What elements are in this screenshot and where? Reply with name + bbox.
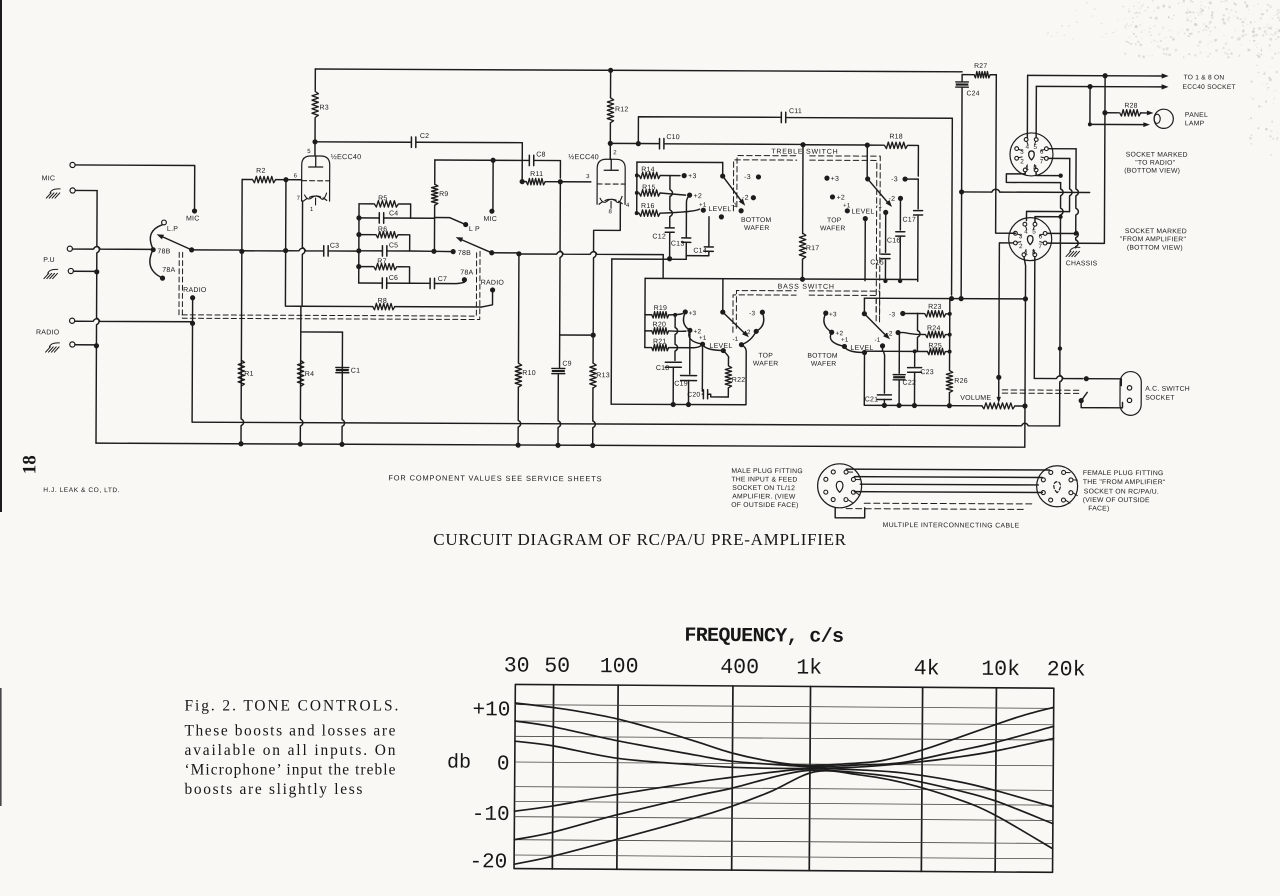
curve cut max: [514, 769, 1053, 868]
wire C11 line: [638, 117, 953, 295]
svg-text:C12: C12: [652, 233, 666, 240]
switch S1b LP contact: [463, 222, 468, 227]
resistor R9: [434, 160, 436, 184]
arc S3b plus chain: [824, 313, 865, 352]
svg-text:C2: C2: [420, 133, 429, 140]
node rail C5: [356, 248, 361, 253]
svg-text:TREBLE SWITCH: TREBLE SWITCH: [771, 148, 838, 155]
node grid ladder tap: [283, 248, 288, 253]
svg-text:TOP: TOP: [827, 217, 842, 224]
svg-text:VOLUME: VOLUME: [960, 395, 991, 402]
resistor R27: [962, 74, 974, 76]
svg-text:-2: -2: [886, 330, 892, 337]
svg-text:FOR COMPONENT VALUES SEE SERVI: FOR COMPONENT VALUES SEE SERVICE SHEETS: [388, 473, 602, 483]
svg-text:SOCKET ON RC/PA/U.: SOCKET ON RC/PA/U.: [1084, 488, 1159, 495]
lamp feed 2: [1089, 87, 1091, 125]
capacitor C14 column: [708, 217, 710, 247]
svg-text:-2: -2: [742, 195, 749, 202]
node C9 bottom: [555, 443, 560, 448]
capacitor C5: [382, 246, 386, 256]
svg-text:C5: C5: [389, 242, 398, 249]
svg-text:18: 18: [19, 455, 40, 474]
svg-text:FACE): FACE): [1088, 505, 1109, 512]
curve cut low: [514, 766, 1053, 815]
curve boost mid: [515, 721, 1054, 768]
cable conductor 3: [860, 483, 1038, 486]
node C10 line R17: [800, 142, 805, 147]
node HT junction at R12: [608, 68, 613, 73]
terminal PU earth: [68, 268, 73, 273]
switch S2a +2: [687, 193, 692, 198]
wire R28 feed: [1104, 76, 1106, 113]
svg-text:50: 50: [544, 655, 570, 679]
switch S3a -3: [760, 310, 765, 315]
page edge line left: [0, 0, 2, 512]
capacitor C9: [559, 335, 561, 367]
svg-text:CHASSIS: CHASSIS: [1066, 260, 1098, 267]
node C18 bottom: [671, 402, 676, 407]
wire treble level column: [864, 219, 866, 281]
svg-text:FREQUENCY, c/s: FREQUENCY, c/s: [684, 625, 844, 649]
switch S3b +1: [842, 344, 847, 349]
capacitor C6: [359, 282, 410, 284]
capacitor C19 column: [689, 330, 691, 374]
svg-text:LEVEL: LEVEL: [852, 208, 875, 215]
wire anode line C10: [610, 143, 803, 144]
wire -2 to R24: [898, 333, 924, 335]
svg-text:C15: C15: [870, 259, 884, 266]
svg-text:WAFER: WAFER: [811, 361, 837, 368]
svg-text:"FROM AMPLIFIER": "FROM AMPLIFIER": [1120, 236, 1187, 243]
svg-text:C14: C14: [693, 248, 707, 255]
resistor R19: [645, 314, 652, 316]
svg-text:C7: C7: [438, 276, 447, 283]
svg-text:+3: +3: [829, 311, 837, 318]
switch S3b -1: [880, 343, 885, 348]
socket J1 TO RADIO: [1010, 133, 1053, 176]
node C22 bottom: [896, 403, 901, 408]
chart frame: [514, 684, 1054, 872]
wire R11 to V2 grid: [560, 181, 590, 183]
op-amp U2 tube V2 half-ECC40: [597, 159, 625, 204]
capacitor C4: [359, 217, 411, 219]
svg-text:C21: C21: [865, 396, 879, 403]
svg-text:-10: -10: [472, 804, 510, 827]
node rail C4: [356, 215, 361, 220]
switch S2b -2: [898, 196, 903, 201]
svg-text:R2: R2: [256, 168, 265, 175]
svg-text:0: 0: [497, 753, 510, 776]
capacitor C11: [781, 112, 785, 122]
svg-text:R5: R5: [378, 195, 387, 202]
capacitor C1: [342, 332, 345, 444]
svg-text:R20: R20: [653, 321, 667, 328]
svg-text:100: 100: [600, 655, 639, 679]
ground RADIO: [46, 343, 60, 352]
switch S3a -1: [739, 342, 744, 347]
pot wiper arrow: [996, 375, 1001, 380]
svg-text:8: 8: [609, 209, 613, 215]
wire C2 column join: [521, 177, 523, 181]
panel lamp: [1154, 109, 1173, 128]
svg-text:3: 3: [1020, 149, 1024, 156]
wire treble-right bottom / bass top: [645, 278, 918, 279]
switch S2b pivot: [865, 176, 870, 181]
wire R23-25 right rail: [949, 299, 951, 370]
svg-text:BOTTOM: BOTTOM: [741, 217, 772, 224]
svg-text:-2: -2: [889, 196, 896, 203]
terminal RADIO input: [70, 318, 75, 323]
svg-text:+1: +1: [699, 202, 707, 209]
wire RADIO contact to R8: [481, 290, 492, 307]
node MIC contact: [192, 208, 197, 213]
svg-text:MALE PLUG FITTING: MALE PLUG FITTING: [731, 468, 803, 475]
svg-text:-1: -1: [731, 202, 737, 209]
svg-text:78A: 78A: [162, 267, 175, 274]
svg-text:WAFER: WAFER: [753, 360, 779, 367]
switch S2a arm: [723, 176, 743, 202]
node switch1 common tap: [239, 249, 244, 254]
cable conductor 4: [854, 491, 1042, 494]
wire V1 cathode down: [302, 201, 305, 306]
wire -3 to C17 column: [905, 178, 918, 180]
switch S3a +2: [687, 328, 692, 333]
resistor R10: [516, 251, 521, 256]
svg-text:C18: C18: [656, 365, 670, 372]
svg-text:7: 7: [1040, 158, 1044, 165]
node R13 bottom: [590, 443, 595, 448]
switch S2a -2: [751, 195, 756, 200]
switch S3b pivot: [862, 311, 867, 316]
svg-text:SOCKET MARKED: SOCKET MARKED: [1126, 152, 1188, 159]
node C21 bottom: [882, 403, 887, 408]
socket J2 FROM AMPLIFIER: [1009, 218, 1052, 261]
svg-text:+3: +3: [831, 176, 840, 183]
wire grid line V2: [492, 252, 519, 254]
svg-text:5: 5: [1032, 229, 1036, 236]
svg-text:A.C. SWITCH: A.C. SWITCH: [1145, 386, 1190, 393]
svg-text:5: 5: [1034, 144, 1038, 151]
potentiometer VOLUME: [982, 403, 1015, 409]
node R12 plate junction: [608, 141, 613, 146]
wire R11-right column: [560, 182, 563, 335]
cable dashed outline 1: [864, 502, 1035, 505]
svg-text:-3: -3: [749, 310, 755, 317]
curve treble/bass boost max: [515, 703, 1054, 767]
svg-text:4k: 4k: [914, 657, 940, 681]
wire S1a common to grid line: [192, 249, 242, 251]
svg-text:C19: C19: [674, 381, 688, 388]
svg-text:6: 6: [294, 173, 298, 179]
switch S2a +1: [701, 208, 706, 213]
switch S3a +1: [700, 342, 705, 347]
switch S1a 78B contact: [151, 247, 156, 252]
svg-text:db: db: [447, 752, 471, 775]
svg-text:WAFER: WAFER: [744, 225, 770, 232]
node R9 bottom junction: [431, 249, 436, 254]
wire grid drop to bass rail: [662, 255, 664, 279]
node cathode bias junction: [591, 333, 596, 338]
wire s2pin1 column: [1023, 257, 1026, 448]
svg-text:L.P: L.P: [167, 226, 178, 233]
switch S3a level: [721, 348, 726, 353]
wire RADIO feed column: [191, 298, 194, 422]
curve boost low: [515, 735, 1054, 771]
terminal MIC input: [70, 162, 75, 167]
svg-text:RADIO: RADIO: [36, 329, 60, 336]
svg-text:6: 6: [1040, 149, 1044, 156]
wire C10 line to R18: [803, 144, 867, 146]
svg-text:C23: C23: [920, 369, 934, 376]
plug female face: [1037, 466, 1078, 507]
svg-text:R19: R19: [654, 305, 668, 312]
node C12 bottom: [667, 256, 672, 261]
svg-text:C10: C10: [666, 134, 680, 141]
node MIC column top: [491, 158, 496, 163]
svg-text:+1: +1: [841, 337, 849, 344]
wire heater drop to s2pin7: [1047, 112, 1105, 243]
svg-text:1: 1: [1024, 250, 1028, 257]
node C10 line pivot tap: [865, 143, 870, 148]
node rail R6: [356, 232, 361, 237]
wire s1pin1 bend: [1006, 172, 1060, 183]
svg-text:C6: C6: [389, 275, 398, 282]
svg-text:H.J. LEAK & CO, LTD.: H.J. LEAK & CO, LTD.: [43, 487, 120, 494]
wire s2pin8 to AC switch: [1033, 257, 1036, 379]
svg-text:R1: R1: [244, 371, 253, 378]
node R1 bottom on earth bus: [238, 441, 243, 446]
terminal MIC earth: [70, 188, 75, 193]
svg-text:3: 3: [586, 174, 590, 180]
switch S3a -2: [754, 329, 759, 334]
node PU earth on rail: [94, 269, 99, 274]
node R10 bottom: [515, 442, 520, 447]
svg-text:78A: 78A: [460, 269, 473, 276]
wire C8 to R11 right: [534, 160, 561, 178]
svg-text:R27: R27: [974, 63, 987, 70]
svg-text:C24: C24: [967, 90, 980, 97]
node C19 bottom: [686, 402, 691, 407]
wire bass bottom to volume: [864, 353, 882, 406]
svg-text:‘Microphone’ input the treble: ‘Microphone’ input the treble: [185, 762, 396, 779]
capacitor C17: [917, 179, 919, 209]
resistor R3: [314, 69, 316, 90]
svg-text:1: 1: [310, 207, 314, 213]
svg-text:SOCKET: SOCKET: [1145, 395, 1174, 402]
svg-text:R25: R25: [928, 343, 942, 350]
wire s1pin7 to s2pin4: [1048, 157, 1069, 159]
svg-text:R15: R15: [642, 184, 656, 191]
switch S1b 78A contact: [462, 277, 467, 282]
wire -1 to R25 row: [865, 346, 928, 352]
cable conductor 1: [846, 468, 1049, 471]
switch S1b arm: [460, 239, 492, 253]
svg-text:-2: -2: [744, 329, 750, 336]
svg-text:R4: R4: [305, 371, 314, 378]
curve cut mid: [514, 768, 1053, 844]
svg-text:30: 30: [504, 654, 530, 678]
resistor R24: [925, 331, 945, 337]
switch S1b MIC contact: [489, 209, 494, 214]
switch S1b RADIO contact: [490, 287, 495, 292]
switch S3a +3: [683, 309, 688, 314]
svg-text:"TO RADIO": "TO RADIO": [1135, 160, 1175, 167]
ground PU: [44, 269, 58, 278]
svg-text:½ECC40: ½ECC40: [331, 152, 362, 161]
svg-text:(BOTTOM VIEW): (BOTTOM VIEW): [1127, 245, 1183, 252]
svg-text:1: 1: [1026, 165, 1030, 172]
arc S3a minus chain: [741, 312, 763, 345]
switch S3a pivot: [720, 309, 725, 314]
wire tone box left: [610, 259, 613, 404]
svg-text:-3: -3: [891, 176, 898, 183]
wire chassis return bus: [192, 420, 1060, 426]
svg-text:R23: R23: [928, 304, 942, 311]
wire C1 tap: [301, 331, 343, 333]
wire LP to R9 bottom: [435, 218, 466, 225]
wire C2 line: [315, 142, 522, 178]
switch S2b +3: [824, 176, 829, 181]
terminal PU input: [67, 246, 72, 251]
svg-text:C11: C11: [789, 108, 802, 115]
switch S2a pivot: [720, 173, 725, 178]
svg-text:PANEL: PANEL: [1185, 112, 1208, 119]
svg-text:R3: R3: [319, 105, 328, 112]
svg-text:LEVEL: LEVEL: [709, 206, 732, 213]
chart horizontal gridlines: [515, 705, 1053, 709]
capacitor C18 column: [675, 315, 678, 361]
wire C5 row to 78B: [410, 250, 434, 252]
svg-text:C3: C3: [330, 243, 339, 250]
svg-text:C13: C13: [671, 241, 685, 248]
wire grid line V1: [242, 250, 286, 252]
resistor R28: [1120, 110, 1141, 116]
wire HT+ top bus: [315, 69, 962, 72]
svg-text:CURCUIT DIAGRAM OF RC/PA/U: CURCUIT DIAGRAM OF RC/PA/U PRE-AMPLIFIER: [433, 530, 846, 549]
node bass rail top corner: [644, 278, 646, 347]
svg-text:+1: +1: [843, 202, 851, 209]
ground CHASSIS: [1066, 247, 1080, 256]
treble gang dashed box: [733, 160, 796, 211]
capacitor C7: [410, 282, 465, 284]
wire C4 row to R9 foot: [411, 217, 435, 219]
svg-text:-3: -3: [889, 311, 895, 318]
node R3/C2/plate: [312, 139, 317, 144]
svg-text:P.U: P.U: [43, 257, 55, 264]
resistor R15: [635, 191, 639, 195]
capacitor C21: [883, 351, 884, 393]
svg-text:C20: C20: [687, 392, 700, 399]
wire S1a arc LP-78B-78A: [150, 225, 163, 277]
mech link volume to AC switch: [1002, 389, 1078, 391]
svg-text:BASS SWITCH: BASS SWITCH: [778, 284, 835, 291]
switch S2a level: [719, 214, 724, 219]
svg-text:R13: R13: [596, 372, 610, 379]
svg-text:R17: R17: [806, 245, 820, 252]
svg-text:+3: +3: [689, 310, 697, 317]
capacitor C15: [885, 212, 887, 252]
node S1b common: [489, 250, 494, 255]
resistor R1: [238, 360, 245, 386]
wire MIC column: [492, 160, 494, 211]
node S1a common: [189, 247, 194, 252]
svg-text:R21: R21: [653, 338, 667, 345]
resistor R21: [645, 347, 652, 349]
svg-text:8: 8: [1032, 249, 1036, 256]
switch AC contact b: [1079, 398, 1084, 403]
svg-text:3: 3: [1019, 233, 1023, 240]
svg-text:-1: -1: [874, 337, 880, 344]
svg-text:+1: +1: [699, 335, 707, 342]
svg-text:(BOTTOM VIEW): (BOTTOM VIEW): [1124, 168, 1180, 175]
svg-text:R16: R16: [641, 203, 655, 210]
svg-text:THE INPUT & FEED: THE INPUT & FEED: [731, 476, 797, 483]
capacitor C3: [324, 246, 328, 256]
svg-text:R9: R9: [439, 191, 448, 198]
svg-text:-1: -1: [732, 336, 738, 343]
svg-text:MULTIPLE INTERCONNECTING CABLE: MULTIPLE INTERCONNECTING CABLE: [883, 522, 1020, 530]
svg-text:10k: 10k: [981, 658, 1020, 682]
wire s2pin2 to volume wiper: [999, 243, 1014, 377]
svg-text:SOCKET MARKED: SOCKET MARKED: [1125, 228, 1187, 235]
svg-text:4: 4: [1026, 144, 1030, 151]
switch S3b -3: [900, 311, 905, 316]
svg-text:8: 8: [1033, 164, 1037, 171]
switch S2b +1: [845, 208, 850, 213]
capacitor C23: [914, 351, 916, 366]
switch S1a arm: [160, 236, 192, 250]
svg-text:AMPLIFIER. (VIEW: AMPLIFIER. (VIEW: [732, 493, 796, 500]
wire ladder left rail: [358, 204, 360, 283]
svg-text:BOTTOM: BOTTOM: [807, 353, 838, 360]
svg-text:+2: +2: [694, 193, 703, 200]
svg-text:LAMP: LAMP: [1185, 120, 1205, 127]
svg-text:R6: R6: [378, 226, 387, 233]
switch S2b arm: [868, 179, 890, 204]
svg-text:400: 400: [720, 656, 759, 680]
svg-text:78B: 78B: [458, 250, 471, 257]
svg-text:-20: -20: [469, 851, 507, 874]
svg-text:OF OUTSIDE FACE): OF OUTSIDE FACE): [731, 502, 798, 509]
wire chassis column: [1076, 149, 1079, 248]
switch S2b -3: [902, 176, 907, 181]
svg-text:These boosts and losses are: These boosts and losses are: [185, 723, 396, 740]
svg-text:4: 4: [626, 203, 630, 209]
switch S2b -1: [883, 210, 888, 215]
wire treble-left bottom: [612, 258, 686, 260]
svg-text:R22: R22: [732, 377, 746, 384]
cable dashed outline 2: [846, 508, 1026, 511]
svg-text:R12: R12: [615, 106, 629, 113]
svg-text:SOCKET ON TL/12: SOCKET ON TL/12: [732, 485, 795, 492]
wire socket1 pin5 column: [1035, 86, 1037, 137]
svg-text:RADIO: RADIO: [183, 287, 207, 294]
wire -1 column to box bottom: [611, 344, 746, 405]
svg-text:R18: R18: [889, 134, 903, 141]
wire heater tap line: [959, 189, 964, 194]
node rail R7: [356, 264, 361, 269]
capacitor C12 column: [670, 176, 673, 228]
wire R2-right column to cathode node: [285, 180, 301, 307]
svg-text:4: 4: [1024, 228, 1028, 235]
ground MIC: [46, 189, 60, 198]
switch S1b 78B contact: [451, 249, 456, 254]
svg-text:½ECC40: ½ECC40: [568, 152, 599, 161]
resistor R25: [927, 348, 945, 354]
svg-text:C17: C17: [902, 217, 916, 224]
plug male tab: [835, 508, 865, 518]
node C23 bottom: [912, 403, 917, 408]
